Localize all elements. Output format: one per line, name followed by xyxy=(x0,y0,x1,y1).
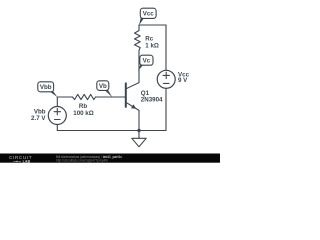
value label Rb 100 kOhm xyxy=(73,103,93,117)
transistor Q1 base bar xyxy=(125,83,127,107)
ground stub xyxy=(138,131,140,139)
node label Vcc (top) xyxy=(139,8,156,25)
wire Rb to base xyxy=(96,96,126,98)
svg-text:1 kΩ: 1 kΩ xyxy=(145,42,159,49)
right loop bottom xyxy=(165,88,167,130)
node label Vc xyxy=(138,55,153,70)
plus xyxy=(163,74,169,76)
node label Vbb xyxy=(38,82,58,97)
junction dot xyxy=(137,129,140,132)
wire base xyxy=(57,96,72,98)
CircuitLab logo xyxy=(9,155,32,163)
value label Vcc 9 V xyxy=(178,72,190,85)
wire emitter down xyxy=(138,110,140,130)
svg-text:Rc: Rc xyxy=(145,35,153,42)
watermark band xyxy=(0,154,220,163)
svg-text:Vb: Vb xyxy=(99,83,107,90)
value label Q1 2N3904 xyxy=(141,90,163,103)
resistor Rc zigzag xyxy=(135,31,141,51)
svg-text:100 kΩ: 100 kΩ xyxy=(73,110,93,117)
wire Rc bottom to collector xyxy=(138,51,140,83)
wire Vbb bottom xyxy=(56,125,58,131)
svg-text:Vbb: Vbb xyxy=(40,84,52,91)
transistor Q1 collector diagonal xyxy=(126,83,139,89)
voltage source Vbb circle xyxy=(48,107,66,125)
svg-text:Rb: Rb xyxy=(79,103,87,110)
wire top node to right loop xyxy=(139,25,166,70)
bottom wire xyxy=(57,130,166,132)
svg-text:2N3904: 2N3904 xyxy=(141,96,163,103)
value label Rc 1 kOhm xyxy=(145,35,159,49)
voltage source Vcc circle xyxy=(157,70,175,88)
svg-text:Vcc: Vcc xyxy=(143,11,155,18)
ground triangle xyxy=(132,138,146,147)
svg-text:http://circuitlab.com/c/q2p477: http://circuitlab.com/c/q2p477pmp49/ xyxy=(56,159,108,163)
transistor Q1 emitter diagonal xyxy=(126,102,139,110)
wire top node down to Rc xyxy=(138,25,140,31)
svg-text:9 V: 9 V xyxy=(178,77,188,84)
minus xyxy=(55,119,61,121)
resistor Rb zigzag xyxy=(73,94,96,99)
value label Vbb 2.7 V xyxy=(31,109,46,122)
attribution text xyxy=(56,155,122,163)
transistor Q1 emitter arrowhead xyxy=(131,104,136,108)
minus xyxy=(163,82,169,84)
svg-text:∼━∼ LAB: ∼━∼ LAB xyxy=(13,160,31,164)
svg-text:2.7 V: 2.7 V xyxy=(31,115,46,122)
svg-text:Vc: Vc xyxy=(143,58,151,65)
plus xyxy=(54,111,60,113)
node label Vb xyxy=(97,81,113,98)
wire Vbb top xyxy=(56,97,58,107)
